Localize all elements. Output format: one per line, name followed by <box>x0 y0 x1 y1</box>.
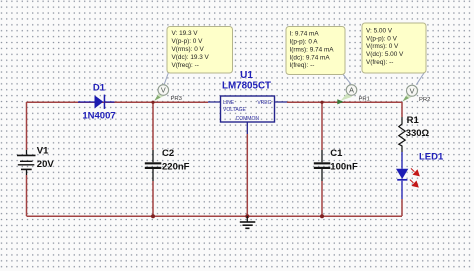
svg-text:VREG: VREG <box>257 100 271 106</box>
svg-text:V(dc): 19.3 V: V(dc): 19.3 V <box>172 54 210 61</box>
svg-text:LM7805CT: LM7805CT <box>222 80 271 91</box>
svg-text:LED1: LED1 <box>419 152 444 163</box>
svg-text:C1: C1 <box>330 148 343 159</box>
svg-text:PR2: PR2 <box>419 97 430 103</box>
svg-text:PR3: PR3 <box>171 96 183 102</box>
svg-text:V(freq): --: V(freq): -- <box>172 62 199 69</box>
svg-text:V: 5.00 V: V: 5.00 V <box>366 27 393 34</box>
svg-text:V(p-p): 0 V: V(p-p): 0 V <box>366 35 398 42</box>
svg-text:D1: D1 <box>93 83 106 94</box>
svg-text:V1: V1 <box>37 146 49 157</box>
svg-text:V(rms): 0 V: V(rms): 0 V <box>172 46 205 53</box>
svg-text:C2: C2 <box>162 148 174 159</box>
svg-text:V(p-p): 0 V: V(p-p): 0 V <box>172 38 204 45</box>
svg-text:I(p-p): 0 A: I(p-p): 0 A <box>290 39 319 46</box>
svg-text:1N4007: 1N4007 <box>82 111 115 122</box>
svg-text:I(dc): 9.74 mA: I(dc): 9.74 mA <box>290 54 331 61</box>
svg-text:COMMON: COMMON <box>236 116 260 122</box>
svg-text:V(dc): 5.00 V: V(dc): 5.00 V <box>366 51 404 58</box>
svg-text:V(rms): 0 V: V(rms): 0 V <box>366 43 399 50</box>
svg-text:I(freq): --: I(freq): -- <box>290 62 315 69</box>
svg-text:LINE: LINE <box>223 100 235 106</box>
svg-text:220nF: 220nF <box>162 161 190 172</box>
svg-text:V: V <box>410 86 415 95</box>
svg-text:100nF: 100nF <box>330 161 358 172</box>
svg-text:PR1: PR1 <box>359 97 370 103</box>
svg-text:VOLTAGE: VOLTAGE <box>223 107 247 113</box>
svg-text:R1: R1 <box>407 115 420 126</box>
svg-text:A: A <box>349 86 354 95</box>
svg-text:330Ω: 330Ω <box>406 128 430 139</box>
svg-text:V: 19.3 V: V: 19.3 V <box>172 30 199 37</box>
svg-text:V: V <box>161 86 166 95</box>
svg-text:I(rms): 9.74 mA: I(rms): 9.74 mA <box>290 46 335 53</box>
svg-text:20V: 20V <box>37 159 55 170</box>
svg-text:U1: U1 <box>240 70 253 81</box>
svg-text:I: 9.74 mA: I: 9.74 mA <box>290 31 320 38</box>
svg-text:V(freq): --: V(freq): -- <box>366 59 393 66</box>
